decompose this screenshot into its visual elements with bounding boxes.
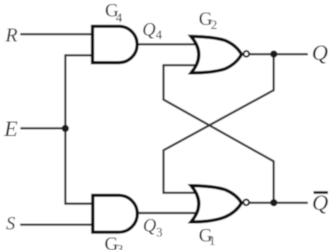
svg-text:3: 3 <box>156 226 162 240</box>
svg-text:R: R <box>4 25 17 47</box>
svg-text:3: 3 <box>117 242 124 250</box>
label Q3 <box>143 217 163 240</box>
wire Qbar output <box>250 202 308 204</box>
svg-text:Q: Q <box>312 40 328 65</box>
svg-text:S: S <box>6 215 15 235</box>
svg-text:E: E <box>3 116 18 141</box>
svg-text:Q: Q <box>142 20 156 40</box>
node Qbar junction <box>270 199 277 206</box>
node E junction <box>62 125 69 132</box>
wire E vertical branch to both AND gates <box>65 55 94 203</box>
svg-text:2: 2 <box>211 17 218 32</box>
nor-gate G1 <box>191 186 242 222</box>
label Qbar <box>312 190 328 215</box>
label G1 <box>199 226 216 248</box>
svg-text:4: 4 <box>156 28 163 42</box>
svg-text:1: 1 <box>209 233 216 248</box>
svg-text:Q: Q <box>143 217 157 237</box>
wire R input <box>20 33 94 35</box>
node Q junction <box>270 51 277 58</box>
and-gate G4 <box>93 26 138 62</box>
svg-text:4: 4 <box>116 10 123 25</box>
nor-gate G2 <box>191 36 242 73</box>
wire Q3 from G3 to G1 <box>135 212 197 214</box>
wire feedback Qbar to G2 lower input <box>164 65 274 203</box>
wire E input <box>20 127 65 129</box>
bubble G1 <box>243 200 249 206</box>
label G3 <box>105 234 124 250</box>
wire feedback Q to G1 upper input <box>164 54 274 193</box>
wire S input <box>20 224 94 226</box>
label G4 <box>105 1 123 25</box>
wire Q4 from G4 to G2 <box>135 43 197 45</box>
bubble G2 <box>244 51 250 57</box>
wire Q output <box>250 53 308 55</box>
label Q4 <box>142 20 163 42</box>
label G2 <box>199 9 218 32</box>
and-gate G3 <box>93 195 138 232</box>
